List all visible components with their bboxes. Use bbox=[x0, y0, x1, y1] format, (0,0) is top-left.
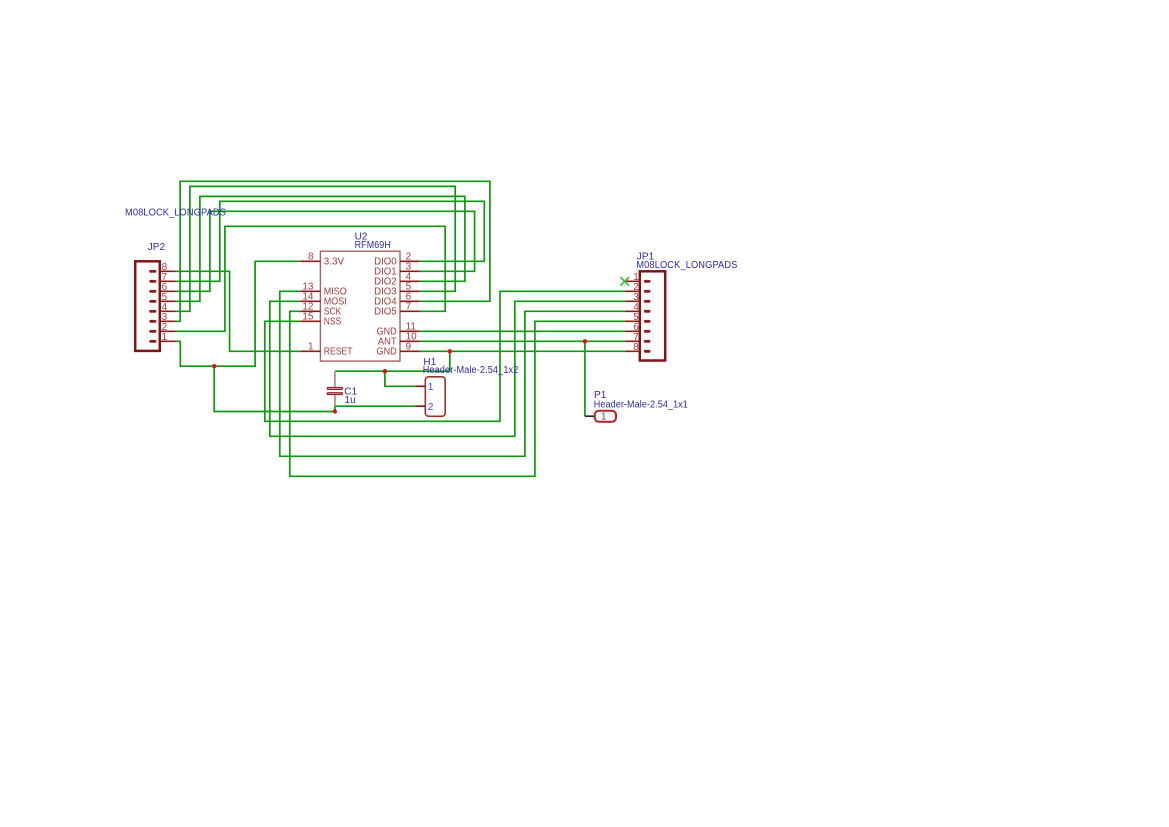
svg-text:3.3V: 3.3V bbox=[324, 257, 345, 268]
wire net GND branch to C1 top bbox=[335, 351, 450, 371]
C1 top plate bbox=[327, 388, 342, 390]
H1 pin 2 stub bbox=[415, 405, 425, 407]
IC U2 RFM69H bbox=[300, 231, 420, 361]
header H1 bbox=[415, 357, 519, 416]
svg-text:M08LOCK_LONGPADS: M08LOCK_LONGPADS bbox=[125, 207, 226, 218]
JP1 pin numbers bbox=[633, 272, 639, 353]
capacitor C1 bbox=[327, 371, 357, 406]
wire net DIO0 (JP2.7 to U2 DIO0) bbox=[176, 201, 485, 281]
svg-text:1: 1 bbox=[308, 342, 314, 353]
JP1 box bbox=[640, 271, 665, 360]
svg-text:1: 1 bbox=[162, 332, 168, 343]
wire net NSS (U2 NSS to JP1.2) bbox=[265, 291, 625, 421]
svg-text:GND: GND bbox=[377, 347, 397, 358]
connector JP1 bbox=[620, 252, 737, 361]
wire net ANT branch to P1 bbox=[584, 341, 586, 416]
U2 box bbox=[320, 251, 400, 361]
P1 box bbox=[595, 411, 616, 422]
svg-text:7: 7 bbox=[406, 302, 412, 313]
svg-text:NSS: NSS bbox=[324, 317, 342, 328]
wire net DIO2 (JP2.5 to U2 DIO2) bbox=[176, 196, 465, 301]
H1 box bbox=[425, 377, 445, 417]
junction on 3V3 net bbox=[212, 364, 216, 368]
JP1 pads bbox=[645, 281, 649, 351]
svg-text:RFM69H: RFM69H bbox=[355, 240, 391, 251]
svg-text:1: 1 bbox=[428, 381, 434, 393]
U2 left pin stubs bbox=[300, 261, 320, 351]
svg-text:8: 8 bbox=[308, 252, 314, 263]
JP1 pin stubs bbox=[625, 281, 641, 351]
svg-text:1: 1 bbox=[601, 411, 607, 423]
U2 right pin names bbox=[374, 257, 397, 358]
wire net RESET (JP2.8 to U2 RESET) bbox=[176, 271, 301, 351]
svg-text:Header-Male-2.54_1x2: Header-Male-2.54_1x2 bbox=[423, 365, 519, 376]
svg-text:2: 2 bbox=[428, 401, 434, 413]
wire net DIO5 (JP2.2 to U2 DIO5) bbox=[176, 226, 446, 331]
JP2 pin numbers bbox=[162, 262, 168, 343]
JP2 pads bbox=[151, 271, 155, 341]
wire net 3V3 branch C1 bottom to H1.2 bbox=[335, 406, 415, 411]
connector JP2 bbox=[125, 207, 226, 351]
svg-text:8: 8 bbox=[633, 342, 639, 353]
U2 right pin numbers bbox=[406, 252, 418, 353]
U2 left pin names bbox=[324, 257, 353, 358]
H1 pin 1 stub bbox=[415, 385, 425, 387]
svg-text:DIO5: DIO5 bbox=[374, 307, 397, 318]
U2 right pin stubs bbox=[400, 261, 420, 351]
JP1 pin1 no-connect X marker bbox=[620, 277, 629, 286]
U2 left pin numbers bbox=[302, 252, 314, 353]
C1 bottom lead bbox=[334, 395, 336, 406]
svg-text:RESET: RESET bbox=[324, 347, 353, 358]
wire net DIO1 (JP2.6 to U2 DIO1) bbox=[176, 211, 475, 291]
wire net GND branch to H1.1 bbox=[385, 371, 415, 386]
wire net SCK (U2 SCK to JP1.5) bbox=[290, 311, 625, 476]
JP2 pin stubs bbox=[159, 271, 176, 341]
C1 bottom plate bbox=[327, 393, 342, 395]
wire net MISO (U2 MISO to JP1.4) bbox=[280, 291, 625, 456]
JP2 box bbox=[135, 261, 160, 351]
C1 top lead bbox=[334, 371, 336, 387]
wire net MOSI (U2 MOSI to JP1.3) bbox=[270, 301, 625, 436]
svg-text:15: 15 bbox=[302, 312, 314, 323]
svg-text:9: 9 bbox=[406, 342, 412, 353]
P1 pin stub bbox=[585, 415, 595, 417]
wire net 3V3 (JP2.1 to U2 3.3V) bbox=[176, 261, 301, 366]
wire net DIO4 (JP2.3 to U2 DIO4) bbox=[176, 181, 490, 321]
svg-text:1u: 1u bbox=[345, 395, 356, 406]
wire net 3V3 branch to C1 bottom bbox=[214, 366, 335, 411]
wire net GND (U2 pin9 to JP1.8) bbox=[420, 350, 625, 352]
junction on GND net at H1 branch bbox=[383, 369, 387, 373]
wire net ANT (U2 pin10 to JP1.7) bbox=[420, 340, 625, 342]
wire net DIO3 (JP2.4 to U2 DIO3) bbox=[176, 186, 456, 311]
svg-text:Header-Male-2.54_1x1: Header-Male-2.54_1x1 bbox=[594, 400, 688, 411]
junction on 3V3 net at C1 bottom bbox=[333, 409, 337, 413]
svg-text:M08LOCK_LONGPADS: M08LOCK_LONGPADS bbox=[636, 260, 737, 271]
junction on GND net at C1 branch bbox=[448, 349, 452, 353]
junction on ANT net at P1 branch bbox=[583, 339, 587, 343]
header P1 bbox=[585, 390, 688, 423]
wire net GND2 (U2 pin11 to JP1.6) bbox=[420, 330, 625, 332]
svg-text:JP2: JP2 bbox=[148, 242, 166, 253]
